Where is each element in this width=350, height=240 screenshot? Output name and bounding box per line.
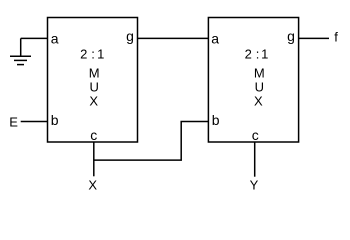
svg-text:X: X xyxy=(89,94,98,109)
svg-text:b: b xyxy=(51,112,59,128)
svg-text::: : xyxy=(91,47,95,62)
svg-text:b: b xyxy=(212,112,220,128)
svg-text:M: M xyxy=(254,66,265,81)
svg-text:1: 1 xyxy=(261,47,268,62)
wire U1 g to U2 a xyxy=(138,37,209,39)
svg-text:E: E xyxy=(9,115,18,130)
svg-text:2: 2 xyxy=(245,47,252,62)
svg-text:c: c xyxy=(90,127,97,143)
svg-text:X: X xyxy=(254,94,263,109)
svg-text:g: g xyxy=(126,28,134,44)
mux U1 body xyxy=(48,18,138,143)
svg-text:f: f xyxy=(334,30,338,45)
mux U2 body xyxy=(208,18,298,143)
svg-text:M: M xyxy=(89,66,100,81)
wire node X junction to U2 b riser xyxy=(94,122,209,161)
svg-text:Y: Y xyxy=(250,178,259,193)
svg-text:U: U xyxy=(90,80,99,95)
wire ground to U1 pin a xyxy=(21,37,48,39)
svg-text:X: X xyxy=(88,178,97,193)
wire E to U1 pin b xyxy=(21,121,48,123)
U2 label 2:1 xyxy=(245,47,269,62)
svg-text:g: g xyxy=(287,28,295,44)
svg-text:2: 2 xyxy=(80,47,87,62)
svg-text:a: a xyxy=(211,31,219,47)
wire U2 g to node f xyxy=(299,37,329,39)
U1 label 2:1 xyxy=(80,47,104,62)
ground xyxy=(10,38,31,64)
svg-text::: : xyxy=(256,47,260,62)
wire U2 c down to node Y xyxy=(254,142,256,177)
wire U1 c down to node X xyxy=(93,142,95,176)
svg-text:1: 1 xyxy=(97,47,104,62)
svg-text:a: a xyxy=(51,31,59,47)
svg-text:U: U xyxy=(255,80,264,95)
svg-text:c: c xyxy=(252,127,259,143)
